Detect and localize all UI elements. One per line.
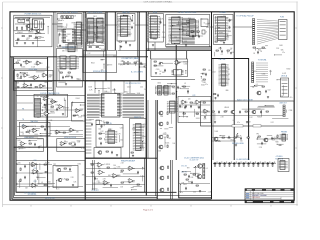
phones annotations bbox=[215, 131, 243, 143]
block box key matrix bbox=[87, 14, 106, 52]
svg-text:PHONES LEVEL: PHONES LEVEL bbox=[232, 143, 244, 145]
node J2 bbox=[36, 33, 37, 34]
svg-text:FL DISPLAY DRIVER: FL DISPLAY DRIVER bbox=[60, 11, 78, 14]
svg-text:R330: R330 bbox=[257, 116, 261, 118]
wire dc a bbox=[179, 183, 210, 185]
svg-text:C334: C334 bbox=[157, 83, 161, 85]
capacitor C52 bbox=[190, 105, 192, 109]
capacitor C22 bbox=[34, 143, 36, 147]
node J1 bbox=[24, 24, 25, 25]
IC U201 display driver bbox=[61, 29, 76, 43]
svg-text:220: 220 bbox=[162, 32, 165, 34]
wire trunk a bbox=[52, 23, 57, 25]
svg-text:C78: C78 bbox=[64, 27, 67, 29]
capacitor C97 bbox=[247, 162, 251, 167]
modB annotations bbox=[157, 83, 190, 99]
transistor Q41 bbox=[57, 178, 62, 182]
bus pair dcdc left bbox=[171, 160, 173, 199]
resistor R12 bbox=[99, 133, 101, 134]
ef annotations bbox=[16, 72, 53, 89]
capacitor C96 bbox=[243, 162, 247, 167]
capacitor C913 bbox=[187, 90, 189, 94]
wire key a bbox=[87, 45, 104, 47]
capacitor C10 bbox=[91, 123, 93, 127]
op-amp U905 bbox=[174, 61, 181, 65]
syscon annotations bbox=[88, 86, 146, 95]
svg-text:REMOTE: REMOTE bbox=[134, 117, 141, 119]
svg-text:0.1: 0.1 bbox=[233, 120, 235, 122]
ground G905 bbox=[155, 72, 157, 74]
svg-text:C44: C44 bbox=[49, 120, 52, 122]
svg-text:R330: R330 bbox=[163, 134, 167, 136]
capacitor C51 bbox=[185, 105, 187, 109]
svg-text:R45: R45 bbox=[170, 26, 173, 28]
svg-text:IC601: IC601 bbox=[124, 63, 128, 65]
IC U701 RF bbox=[215, 17, 229, 41]
svg-text:R88: R88 bbox=[60, 17, 63, 19]
svg-text:220: 220 bbox=[101, 69, 104, 71]
capacitor C70 bbox=[94, 177, 96, 181]
svg-text:C44: C44 bbox=[140, 87, 143, 89]
svg-text:TP2: TP2 bbox=[31, 165, 34, 167]
busmid annotations bbox=[201, 70, 216, 86]
capacitor C401 bbox=[131, 19, 133, 23]
battery BT1 bbox=[124, 61, 130, 65]
transistor Q6 bbox=[97, 151, 102, 155]
capacitor C40 bbox=[218, 110, 220, 114]
capacitor C912 bbox=[271, 162, 275, 167]
svg-text:C78: C78 bbox=[95, 178, 98, 180]
svg-text:680: 680 bbox=[206, 27, 209, 29]
capacitor C30 bbox=[184, 106, 186, 110]
svg-text:L3: L3 bbox=[205, 32, 207, 34]
title block bottom cells bbox=[247, 201, 291, 202]
battery annotations bbox=[120, 61, 145, 68]
resistor R105 bbox=[22, 36, 24, 37]
resistor R83 bbox=[184, 174, 186, 175]
svg-text:C334: C334 bbox=[184, 64, 188, 66]
parts right of bus mid bbox=[203, 69, 205, 70]
svg-text:0.1: 0.1 bbox=[178, 63, 180, 65]
resistor R51 bbox=[167, 122, 168, 124]
wire rec riser bbox=[29, 162, 31, 187]
ground G6 bbox=[132, 155, 134, 157]
block box mod amp A bbox=[151, 59, 188, 77]
resistor R46 bbox=[258, 136, 260, 137]
svg-text:100: 100 bbox=[92, 44, 95, 46]
resistor R915 bbox=[214, 94, 216, 95]
svg-text:R612: R612 bbox=[72, 23, 76, 25]
pin comb U601 right bbox=[182, 18, 195, 44]
capacitor C601 bbox=[192, 35, 194, 39]
op-amp U11D bbox=[55, 130, 62, 134]
ground G102 bbox=[24, 42, 26, 44]
svg-text:47u: 47u bbox=[237, 122, 240, 124]
inner block border bottom y195 bbox=[15, 69, 212, 196]
op-amp U20B bbox=[195, 100, 202, 104]
transistor Q33 bbox=[158, 145, 163, 149]
svg-text:0.1: 0.1 bbox=[156, 32, 158, 34]
op-amp U902E bbox=[39, 84, 46, 88]
connector CN11 bbox=[280, 134, 288, 141]
svg-text:C44: C44 bbox=[193, 191, 196, 193]
resistor R71 bbox=[91, 172, 93, 173]
svg-text:47u: 47u bbox=[61, 20, 64, 22]
svg-text:C334: C334 bbox=[117, 166, 121, 168]
svg-text:R330: R330 bbox=[42, 107, 46, 109]
capacitor C201 bbox=[59, 33, 61, 37]
svg-text:C205: C205 bbox=[143, 124, 147, 126]
svg-text:100: 100 bbox=[173, 143, 176, 145]
bus divider vertical x139 bbox=[138, 12, 140, 81]
svg-text:0.1: 0.1 bbox=[133, 23, 135, 25]
IC U10 stripes bbox=[35, 99, 41, 116]
svg-text:D12: D12 bbox=[96, 22, 99, 24]
capacitor C50 bbox=[179, 105, 181, 109]
bus divider horizontal y147 bbox=[14, 146, 85, 148]
ground G10 bbox=[62, 113, 64, 115]
svg-text:680: 680 bbox=[79, 38, 82, 40]
bus divider vertical x234 bbox=[233, 12, 235, 160]
resistor R14 bbox=[131, 152, 133, 153]
IC U908 bar bbox=[162, 86, 171, 96]
ground G7 bbox=[116, 154, 118, 156]
rec annotations bbox=[18, 162, 86, 190]
resistor R911 bbox=[154, 65, 156, 66]
svg-text:47u: 47u bbox=[290, 97, 293, 99]
svg-text:C78: C78 bbox=[199, 178, 202, 180]
resistor R52 bbox=[167, 135, 168, 137]
capacitor C101 bbox=[31, 28, 33, 32]
svg-text:L3: L3 bbox=[121, 61, 123, 63]
resistor R66 bbox=[66, 179, 68, 180]
net tag mute b bbox=[253, 125, 261, 127]
connector CN6 bbox=[133, 124, 144, 151]
block box error amp outer bbox=[16, 96, 85, 148]
bus divider vertical x248 bbox=[248, 58, 250, 160]
svg-text:680: 680 bbox=[136, 61, 139, 63]
block box reset sub bbox=[94, 148, 121, 159]
svg-text:R88: R88 bbox=[17, 87, 20, 89]
resistor R914 bbox=[172, 93, 174, 94]
svg-text:GND: GND bbox=[225, 90, 228, 92]
svg-text:SL+: SL+ bbox=[22, 125, 25, 127]
resistor R902 bbox=[17, 74, 18, 76]
resistor R912 bbox=[172, 86, 174, 87]
op-amp U12A bbox=[20, 142, 27, 146]
svg-text:47u: 47u bbox=[200, 18, 203, 20]
block box focus coil bbox=[34, 94, 68, 117]
svg-text:R612: R612 bbox=[67, 34, 71, 36]
ground G902 bbox=[17, 86, 19, 88]
svg-text:R88: R88 bbox=[100, 60, 103, 62]
svg-text:L3: L3 bbox=[22, 134, 24, 136]
capacitor C82 bbox=[191, 181, 193, 185]
block box servo DSP bbox=[166, 15, 210, 47]
svg-text:POWER SW BLOCK: POWER SW BLOCK bbox=[25, 14, 43, 16]
svg-text:100: 100 bbox=[254, 71, 257, 73]
svg-text:100: 100 bbox=[118, 25, 121, 27]
title block bottom band bbox=[245, 201, 294, 203]
bus divider vertical x85 bbox=[84, 12, 86, 200]
resistor R41 bbox=[224, 111, 226, 112]
capacitor C905 bbox=[140, 62, 142, 65]
op-amp U31A bbox=[97, 163, 104, 168]
capacitor C93 bbox=[228, 162, 232, 167]
svg-text:C334: C334 bbox=[262, 74, 266, 76]
bus divider vertical x146 bbox=[145, 12, 148, 196]
resistor R102 bbox=[17, 27, 18, 29]
bus bundle vertical x54 bbox=[54, 12, 55, 95]
block box RAM bbox=[117, 14, 135, 42]
resistor R22 bbox=[41, 126, 43, 127]
capacitor C901 bbox=[20, 63, 22, 66]
node rec j1 bbox=[17, 164, 18, 165]
crystal X601 bbox=[202, 30, 205, 34]
svg-text:C205: C205 bbox=[153, 39, 157, 41]
svg-text:DC-DC CONVERTER (U50): DC-DC CONVERTER (U50) bbox=[184, 157, 204, 159]
capacitor C23 bbox=[74, 143, 76, 147]
wire drops below divider bbox=[95, 81, 130, 93]
svg-text:680: 680 bbox=[142, 127, 145, 129]
bus divider horizontal y81 bbox=[14, 80, 147, 82]
wire cap row rail bbox=[213, 162, 276, 164]
title block col lines bbox=[250, 191, 281, 201]
svg-text:0.022: 0.022 bbox=[212, 71, 216, 73]
svg-text:C44: C44 bbox=[144, 89, 147, 91]
net tag mute a bbox=[232, 125, 243, 127]
lpf annotations bbox=[179, 99, 208, 119]
resistor R905 bbox=[60, 72, 62, 73]
svg-text:R612: R612 bbox=[28, 87, 32, 89]
resistor R26 bbox=[73, 115, 75, 116]
servo drv annotations bbox=[58, 51, 81, 82]
block box mod B top bbox=[151, 78, 195, 80]
sledL annotations bbox=[17, 140, 44, 150]
svg-text:4.5V REG: 4.5V REG bbox=[276, 156, 284, 158]
ground G915 bbox=[214, 97, 216, 99]
spindle annotations bbox=[88, 53, 116, 71]
svg-text:CDP-C345/C345M OVERALL: CDP-C345/C345M OVERALL bbox=[144, 1, 174, 4]
svg-text:C205: C205 bbox=[80, 25, 84, 27]
svg-text:C205: C205 bbox=[165, 93, 169, 95]
main schematic border bbox=[10, 12, 294, 200]
capacitor C99 bbox=[257, 162, 261, 167]
wire err b bbox=[17, 120, 83, 122]
IC U907 bar bbox=[155, 86, 164, 96]
svg-text:680: 680 bbox=[159, 148, 162, 150]
wire trunk e bbox=[163, 24, 166, 26]
svg-text:IC601: IC601 bbox=[101, 31, 105, 33]
stub comb syscon left edge bbox=[85, 120, 91, 153]
op-amp U30A bbox=[31, 162, 38, 167]
ground G103 bbox=[32, 42, 34, 44]
resistor R21 bbox=[44, 105, 46, 106]
sheet ruler line top bbox=[3, 1, 298, 3]
capacitor C910 bbox=[262, 162, 266, 167]
right col annotations bbox=[250, 69, 292, 99]
svg-text:0.1: 0.1 bbox=[206, 168, 208, 170]
block box record amp bbox=[16, 161, 85, 193]
transistor Q54 bbox=[196, 174, 202, 178]
wire trunk f bbox=[210, 26, 214, 28]
svg-text:R612: R612 bbox=[109, 129, 113, 131]
transistor Q22 bbox=[213, 137, 218, 141]
svg-text:B+ DECOUPLING: B+ DECOUPLING bbox=[237, 159, 251, 161]
block box dcdc U-shape bbox=[179, 170, 212, 198]
inner block border bottom y192 bbox=[16, 81, 177, 192]
svg-text:220: 220 bbox=[47, 187, 50, 189]
block box key scan sub bbox=[96, 125, 123, 148]
bus stub vertical x150 bbox=[150, 51, 152, 59]
transistor Q30 bbox=[158, 111, 163, 115]
block box sled R bbox=[57, 139, 85, 152]
rom box annotations bbox=[149, 18, 166, 41]
wire vtrunk i bbox=[154, 42, 156, 50]
svg-text:C78: C78 bbox=[176, 70, 179, 72]
transistor Q101 bbox=[25, 24, 29, 27]
svg-text:PHONES: PHONES bbox=[281, 132, 287, 134]
wire la c bbox=[86, 184, 145, 186]
wire fan CN9 bbox=[256, 63, 268, 82]
capacitor C902 bbox=[30, 83, 32, 87]
resistor R103 bbox=[22, 27, 23, 29]
wire ef a bbox=[15, 81, 53, 83]
svg-text:4-987-654-01: 4-987-654-01 bbox=[252, 197, 261, 199]
pin comb U6 left bbox=[87, 94, 100, 117]
wire ph a bbox=[212, 137, 240, 139]
svg-text:R88: R88 bbox=[28, 141, 31, 143]
capacitor C12 bbox=[100, 142, 102, 146]
svg-text:D12: D12 bbox=[271, 122, 274, 124]
title block header cells bbox=[247, 189, 291, 190]
svg-text:220: 220 bbox=[223, 16, 226, 18]
ground G201 bbox=[59, 45, 61, 47]
ground G401 bbox=[129, 44, 131, 46]
transistor Q53 bbox=[197, 164, 203, 168]
svg-text:D12: D12 bbox=[225, 18, 228, 20]
svg-text:TP2: TP2 bbox=[35, 34, 38, 36]
resistor R80 bbox=[168, 166, 169, 168]
resistor R802 bbox=[262, 47, 264, 48]
capacitor C46 bbox=[271, 137, 273, 141]
block box tracking bbox=[19, 122, 50, 135]
wire err f bbox=[50, 130, 83, 132]
bus divider vertical x157 bbox=[156, 100, 158, 199]
resistor R903 bbox=[21, 76, 22, 78]
resistor R44 bbox=[222, 137, 224, 138]
pin comb U6 right bbox=[123, 94, 145, 117]
svg-text:220: 220 bbox=[100, 124, 103, 126]
svg-text:C334: C334 bbox=[50, 107, 54, 109]
capacitor C702 bbox=[229, 26, 231, 30]
block box remote sub bbox=[130, 119, 147, 159]
capacitor C71 bbox=[110, 184, 112, 188]
svg-text:TP2: TP2 bbox=[163, 87, 166, 89]
svg-text:680: 680 bbox=[45, 82, 48, 84]
svg-text:R612: R612 bbox=[125, 91, 129, 93]
resistor R33 bbox=[196, 113, 198, 114]
resistor R64 bbox=[20, 179, 21, 181]
transistor Q20 bbox=[230, 110, 235, 114]
svg-text:CD DSP SERVO IC602: CD DSP SERVO IC602 bbox=[178, 12, 197, 14]
block box mute bbox=[201, 101, 295, 126]
resistor R73 bbox=[121, 170, 123, 171]
transistor Q50 bbox=[159, 166, 164, 170]
block box ROM bbox=[148, 14, 164, 43]
connector CN7 bbox=[167, 101, 178, 113]
resistor R13 bbox=[99, 138, 101, 139]
svg-text:220: 220 bbox=[40, 136, 43, 138]
svg-text:0.1: 0.1 bbox=[169, 40, 171, 42]
resistor R15 bbox=[106, 151, 108, 152]
svg-text:D12: D12 bbox=[250, 117, 253, 119]
svg-text:C78: C78 bbox=[106, 122, 109, 124]
resistor R25 bbox=[69, 143, 71, 144]
svg-text:R330: R330 bbox=[117, 175, 121, 177]
left edge bus bundle bbox=[11, 57, 16, 199]
op-amp U32A bbox=[128, 166, 135, 171]
sheet ruler ticks right bbox=[295, 28, 297, 148]
svg-text:C44: C44 bbox=[107, 88, 110, 90]
capacitor C701 bbox=[229, 19, 231, 23]
wire spindle a bbox=[83, 54, 116, 56]
block box mid row2 bbox=[14, 81, 53, 91]
svg-text:C44: C44 bbox=[188, 18, 191, 20]
svg-text:47u: 47u bbox=[282, 52, 285, 54]
resistor R40 bbox=[212, 111, 214, 112]
resistor R301 bbox=[89, 47, 91, 48]
svg-text:TP2: TP2 bbox=[101, 22, 104, 24]
ground G20 bbox=[204, 116, 206, 118]
op-amp U902D bbox=[23, 84, 30, 88]
svg-text:C44: C44 bbox=[180, 24, 183, 26]
capacitor C83 bbox=[185, 187, 187, 191]
resistor R906 bbox=[68, 72, 70, 73]
capacitor C90 bbox=[214, 162, 218, 167]
svg-text:R612: R612 bbox=[93, 16, 97, 18]
op-amp U32B bbox=[128, 179, 135, 184]
wire fan CN801 bbox=[257, 20, 278, 45]
block box sled L bbox=[16, 139, 43, 152]
svg-text:0.1: 0.1 bbox=[173, 87, 175, 89]
dcdc annotations bbox=[180, 166, 212, 194]
resistor R50 bbox=[167, 112, 168, 114]
op-amp U902B bbox=[33, 76, 40, 80]
block box gain right bbox=[72, 102, 86, 121]
sheet ruler ticks left bbox=[1, 28, 3, 178]
IC U603 small bbox=[201, 19, 208, 27]
svg-text:220: 220 bbox=[49, 76, 52, 78]
svg-text:IC6 SYSCON CPU: IC6 SYSCON CPU bbox=[125, 83, 141, 85]
svg-text:4.7u: 4.7u bbox=[37, 99, 40, 101]
svg-text:IC601: IC601 bbox=[19, 32, 23, 34]
IC U906 small bbox=[174, 70, 182, 76]
svg-text:C78: C78 bbox=[69, 69, 72, 71]
rf box annotations bbox=[215, 16, 233, 43]
svg-text:R612: R612 bbox=[190, 28, 194, 30]
display box annotations bbox=[57, 15, 84, 44]
resistor R10 bbox=[106, 122, 108, 123]
svg-text:C205: C205 bbox=[218, 48, 222, 50]
svg-text:L3: L3 bbox=[229, 20, 231, 22]
svg-text:S2: S2 bbox=[228, 74, 230, 76]
wire disp comb bbox=[58, 24, 63, 32]
svg-text:R88: R88 bbox=[101, 33, 104, 35]
transistor Q102 bbox=[35, 29, 40, 33]
resistor R701 bbox=[215, 41, 217, 42]
svg-text:KEY / LED DRIVE: KEY / LED DRIVE bbox=[88, 12, 103, 14]
